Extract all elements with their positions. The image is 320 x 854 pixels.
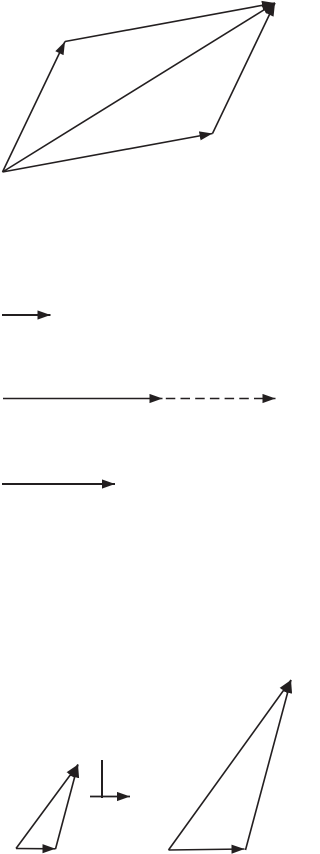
vector a: origin to upper-left vertex (3, 42, 66, 173)
medium vector arrow (2, 483, 115, 485)
vector b: origin to mid-right vertex (3, 134, 213, 173)
long vector arrow solid part (3, 398, 163, 400)
parallelogram right edge: b-tip to far vertex (213, 3, 276, 134)
large triangle hypotenuse vector (169, 680, 292, 850)
map symbol vertical bar (101, 760, 103, 798)
short vector arrow (2, 314, 51, 316)
large triangle base vector (169, 849, 245, 850)
long vector arrow dashed extension (166, 398, 276, 400)
small triangle hypotenuse vector (16, 765, 78, 849)
small triangle base vector (16, 848, 56, 850)
map symbol horizontal arrow (90, 796, 130, 798)
parallelogram top edge: a-tip to far vertex (65, 3, 275, 42)
large triangle right side vector (246, 680, 292, 850)
small triangle right side vector (56, 765, 79, 850)
resultant diagonal: origin to far vertex (3, 3, 276, 172)
